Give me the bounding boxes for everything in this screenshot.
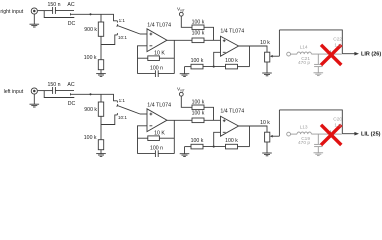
svg-text:L13: L13 [300,124,308,130]
svg-text:left input: left input [4,89,24,95]
svg-text:L14: L14 [300,44,308,50]
svg-text:1 u: 1 u [334,122,341,128]
svg-text:LIR (26): LIR (26) [361,52,381,58]
svg-text:470 p: 470 p [298,140,310,146]
svg-text:1 u: 1 u [334,42,341,48]
svg-text:right input: right input [0,9,23,15]
svg-text:470 p: 470 p [298,60,310,66]
svg-text:C20: C20 [333,116,342,122]
svg-text:C22: C22 [333,36,342,42]
svg-text:LIL (25): LIL (25) [361,132,381,138]
